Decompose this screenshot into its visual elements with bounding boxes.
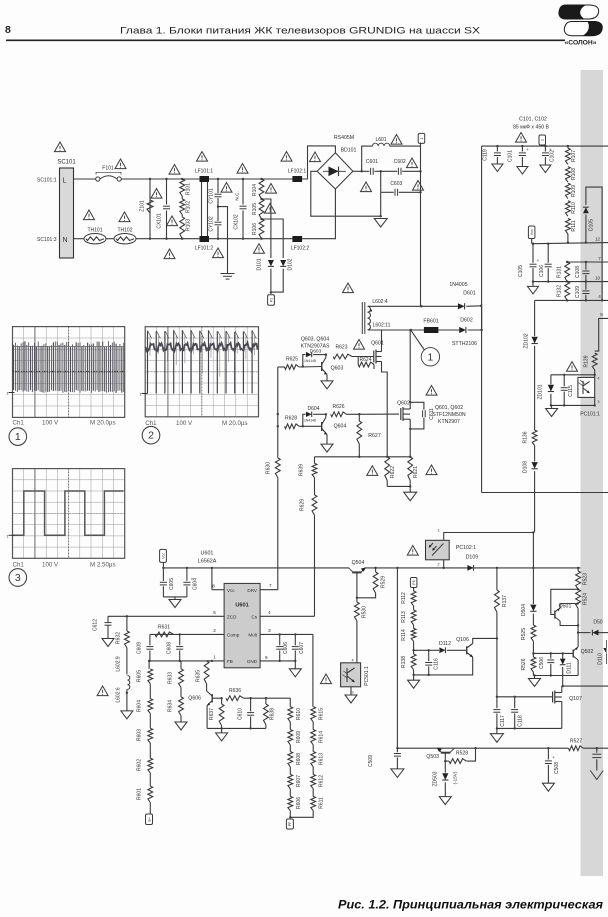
wire R606 to P node bbox=[289, 811, 291, 818]
junction R139 bottom bbox=[594, 374, 596, 376]
svg-text:1: 1 bbox=[420, 137, 424, 139]
capacitor C102 polarized bbox=[545, 146, 555, 165]
junction vcc line D504 column bbox=[532, 567, 534, 569]
varistor Z101 bbox=[140, 200, 154, 213]
svg-text:L602:9: L602:9 bbox=[115, 656, 121, 672]
wire node to C116 bbox=[414, 649, 429, 651]
mosfet Q601 bbox=[371, 340, 384, 367]
warning triangle 26 bbox=[367, 466, 378, 476]
svg-text:R102: R102 bbox=[185, 201, 191, 213]
capacitor C604 polarized bbox=[183, 576, 198, 590]
svg-text:R630: R630 bbox=[266, 462, 272, 474]
svg-text:5: 5 bbox=[213, 610, 216, 615]
svg-text:Q107: Q107 bbox=[569, 696, 582, 702]
wire C603 left bbox=[381, 191, 394, 193]
wire R114 to node bbox=[413, 641, 415, 650]
wire C509 bottom bbox=[396, 757, 398, 769]
svg-text:1: 1 bbox=[541, 139, 545, 141]
svg-text:R607: R607 bbox=[296, 775, 302, 787]
svg-text:R114: R114 bbox=[401, 629, 407, 641]
wire C608 bottom bbox=[179, 651, 181, 661]
wire D604 branch up bbox=[303, 414, 306, 426]
junction N CX102 bbox=[242, 238, 244, 240]
wire ZD101 riser bbox=[550, 375, 552, 385]
svg-text:P6: P6 bbox=[412, 580, 416, 584]
oscillogram 3 caption bbox=[13, 561, 116, 568]
wire R101-R102 bbox=[181, 196, 183, 199]
junction C610 top bbox=[249, 697, 251, 699]
oscillogram 2 number bbox=[142, 426, 160, 444]
wire R605-R604 bbox=[149, 684, 151, 699]
capacitor C102 plates bbox=[542, 153, 549, 156]
wire C118 column bbox=[514, 697, 516, 708]
svg-text:R611: R611 bbox=[318, 797, 324, 809]
svg-text:1N4005: 1N4005 bbox=[449, 282, 467, 288]
wire R626 to gate line bbox=[347, 413, 400, 415]
capacitor C inside band bbox=[592, 754, 601, 757]
junction C608 comp bbox=[179, 633, 181, 635]
warning triangle 5 bbox=[169, 165, 180, 175]
svg-text:4: 4 bbox=[598, 377, 600, 381]
warning triangle 10 bbox=[237, 164, 248, 174]
wire C610 bottom stub bbox=[250, 717, 252, 729]
wire D602 to rail bbox=[468, 306, 482, 330]
wire D102 to P2 node bbox=[271, 269, 283, 292]
svg-text:Q601, Q602: Q601, Q602 bbox=[435, 405, 463, 411]
diode D109 bbox=[467, 565, 473, 571]
svg-text:100 V: 100 V bbox=[176, 420, 193, 427]
svg-text:C610: C610 bbox=[238, 708, 244, 720]
svg-text:C117: C117 bbox=[500, 715, 506, 727]
svg-text:M 2.50µs: M 2.50µs bbox=[90, 561, 116, 568]
capacitor C601 bbox=[366, 159, 378, 175]
svg-text:CX102: CX102 bbox=[234, 214, 240, 230]
wire node to D601 bbox=[421, 305, 458, 307]
oscillogram 3 box bbox=[6, 469, 124, 559]
svg-text:LF102:1: LF102:1 bbox=[288, 169, 307, 175]
wire L602:11 to FB601 bbox=[368, 329, 424, 331]
svg-text:85 мкФ x 450 В: 85 мкФ x 450 В bbox=[513, 125, 550, 131]
hot ground bridge bbox=[374, 219, 387, 228]
junction Vcc pin12 bbox=[532, 243, 534, 245]
svg-text:R624: R624 bbox=[360, 357, 372, 363]
wire node to C602 bbox=[381, 170, 398, 172]
warning triangle 2 bbox=[115, 159, 126, 169]
svg-text:Q606: Q606 bbox=[188, 695, 201, 701]
wire C612 bottom bbox=[107, 626, 109, 639]
transistor Q605 bbox=[188, 691, 212, 706]
wire C603 branch down bbox=[380, 171, 382, 192]
wire bridge plus to C601 node bbox=[353, 170, 362, 172]
warning triangle 23 bbox=[343, 283, 354, 293]
svg-text:R112: R112 bbox=[401, 592, 407, 604]
svg-text:D603: D603 bbox=[310, 349, 322, 355]
wire sense rail bbox=[315, 456, 411, 458]
svg-text:C118: C118 bbox=[518, 715, 524, 727]
wire Z101 column bbox=[149, 179, 151, 239]
wire CX102 column bottom bbox=[242, 211, 244, 239]
capacitor C508 polarized bbox=[545, 755, 560, 774]
warning triangle 4 bbox=[119, 212, 130, 222]
warning triangle 29 bbox=[321, 674, 332, 684]
svg-text:+: + bbox=[526, 147, 529, 152]
warning triangle 17 bbox=[213, 248, 224, 258]
wire Q602 drain up bbox=[409, 330, 411, 402]
wire C602 to right riser bbox=[402, 170, 420, 172]
svg-text:«СОЛОН»: «СОЛОН» bbox=[565, 40, 597, 47]
wire Vcc rail Q504 right bbox=[365, 567, 580, 569]
svg-text:R610: R610 bbox=[296, 708, 302, 720]
svg-text:C506: C506 bbox=[539, 657, 545, 669]
filter LF102 pin 1 bbox=[288, 169, 307, 183]
optocoupler PC101 phototransistor bbox=[578, 377, 595, 397]
ground C604 C605 bbox=[169, 600, 181, 608]
wire R105 tap to D102 bbox=[262, 219, 284, 258]
junction Q501 collector bbox=[577, 624, 579, 626]
svg-text:1N4148: 1N4148 bbox=[304, 359, 316, 363]
junction N CY102 bbox=[217, 238, 219, 240]
wire primary return to transformer bbox=[482, 492, 608, 494]
resistor R524 bbox=[576, 589, 589, 608]
wire riser to L601 bbox=[362, 146, 373, 171]
wire ZD101 node line bbox=[551, 374, 595, 376]
junction R132 bottom bbox=[566, 299, 568, 301]
junction Q602 source C611 bbox=[409, 428, 411, 430]
wire C604 bottom bbox=[186, 586, 188, 597]
wire R633 stub top bbox=[180, 661, 182, 669]
wire CX102 column top bbox=[242, 179, 244, 205]
svg-text:5: 5 bbox=[600, 312, 603, 317]
wire Q107 gate line bbox=[515, 696, 553, 698]
wire aux rail bbox=[397, 747, 568, 749]
junction C117 join bbox=[496, 727, 498, 729]
wire R529 bottom to base node bbox=[357, 593, 376, 598]
junction C116 top bbox=[428, 649, 430, 651]
junction Q502 D50x bbox=[577, 631, 579, 633]
wire N from SC101 to TH101 bbox=[74, 238, 85, 240]
junction D111 Q107 drain bbox=[562, 685, 564, 687]
junction R526 gnd rail bbox=[533, 674, 535, 676]
svg-text:Рис. 1.2. Принципиальная элект: Рис. 1.2. Принципиальная электрическая bbox=[338, 898, 603, 912]
junction L CX102 bbox=[242, 178, 244, 180]
junction D601 rail bbox=[480, 305, 482, 307]
callout circle 1 bbox=[411, 331, 439, 366]
svg-text:C508: C508 bbox=[554, 762, 560, 774]
capacitor CY101 bbox=[209, 188, 222, 204]
svg-text:C609: C609 bbox=[136, 642, 142, 654]
svg-text:C606: C606 bbox=[283, 642, 289, 654]
wire R614-R613 bbox=[312, 745, 314, 752]
wire R111 to pin12 line bbox=[567, 234, 569, 243]
svg-text:R109: R109 bbox=[571, 185, 577, 197]
wire R621 bottom stub bbox=[409, 481, 411, 487]
warning triangle 16 bbox=[254, 244, 265, 254]
svg-text:D108: D108 bbox=[523, 461, 529, 473]
optocoupler PC102 LED bbox=[426, 540, 450, 560]
svg-text:FB601: FB601 bbox=[423, 318, 438, 324]
svg-text:R525: R525 bbox=[521, 628, 527, 640]
transistor Q504 bbox=[349, 560, 366, 575]
wire D504 to R525 bbox=[532, 614, 534, 625]
wire pin3 Mult line bbox=[260, 633, 313, 635]
svg-text:1: 1 bbox=[15, 431, 21, 443]
svg-text:C105: C105 bbox=[518, 265, 524, 277]
warning triangle 15 bbox=[310, 152, 321, 162]
svg-text:R608: R608 bbox=[296, 753, 302, 765]
junction C116 bottom bbox=[428, 674, 430, 676]
svg-text:C605: C605 bbox=[169, 578, 175, 590]
filter LF101 pin 2 bbox=[195, 236, 214, 252]
junction C109 bottom bbox=[585, 299, 587, 301]
svg-text:R632: R632 bbox=[115, 632, 121, 644]
capacitor C119 bbox=[483, 146, 498, 164]
svg-text:Q603: Q603 bbox=[331, 366, 344, 372]
wire R524 bottom bbox=[577, 609, 579, 633]
svg-text:R614: R614 bbox=[318, 731, 324, 743]
junction N Z101 bbox=[149, 238, 151, 240]
wire R607-R606 bbox=[289, 789, 291, 797]
wire Vcc rail bbox=[163, 567, 349, 569]
svg-text:R604: R604 bbox=[136, 700, 142, 712]
resistor R609 bbox=[288, 730, 302, 745]
wire D603 branch up bbox=[303, 355, 306, 367]
svg-text:1: 1 bbox=[438, 529, 440, 533]
ground C508 bbox=[542, 783, 554, 791]
svg-text:Q604: Q604 bbox=[334, 424, 347, 430]
junction R523 R524 bbox=[577, 588, 579, 590]
junction Q504 base node bbox=[356, 597, 358, 599]
junction R627 top bbox=[358, 413, 360, 415]
wire drain line to transformer bbox=[563, 685, 608, 687]
wire C609 top corner bbox=[149, 634, 151, 645]
wire D112 to Q106 base bbox=[447, 649, 467, 651]
svg-text:Ch1: Ch1 bbox=[145, 420, 157, 427]
resistor R629 bbox=[300, 495, 317, 515]
svg-text:R137: R137 bbox=[502, 595, 508, 607]
svg-text:1: 1 bbox=[428, 353, 434, 364]
wire base line Q502 bbox=[533, 652, 573, 654]
junction R621 gnd bbox=[409, 485, 411, 487]
wire R638 top stub bbox=[265, 698, 267, 704]
resistor R138 bbox=[401, 654, 416, 670]
capacitor C606 bbox=[276, 642, 289, 654]
wire C506 bottom bbox=[550, 664, 552, 676]
wire CY to N bbox=[217, 226, 219, 239]
resistor R101 bbox=[180, 179, 192, 196]
resistor R624 bbox=[358, 357, 374, 367]
wire C606 bottom bbox=[279, 651, 281, 661]
svg-text:C608: C608 bbox=[166, 642, 172, 654]
svg-text:SC101: SC101 bbox=[57, 160, 76, 166]
svg-text:Vcc: Vcc bbox=[227, 588, 235, 593]
wire C106 bottom bbox=[547, 268, 549, 282]
junction C508 rail bbox=[547, 747, 549, 749]
warning triangle 9 bbox=[197, 152, 208, 162]
wire C118 bottom bbox=[514, 714, 516, 729]
wire R609-R608 bbox=[289, 745, 291, 752]
capacitor C119 plates bbox=[494, 153, 501, 156]
svg-text:Q504: Q504 bbox=[352, 560, 365, 566]
junction C106 top bbox=[547, 243, 549, 245]
svg-text:C601: C601 bbox=[366, 159, 378, 165]
svg-text:D110: D110 bbox=[598, 653, 604, 665]
junction C106 bottom bbox=[547, 280, 549, 282]
wire R527 to transformer cap bbox=[583, 747, 608, 749]
wire C105 gnd stub bbox=[532, 282, 534, 287]
svg-text:DRV: DRV bbox=[247, 588, 258, 593]
wire Q603 emitter to gnd bbox=[326, 375, 328, 381]
wire Q605 base right bbox=[212, 697, 221, 699]
diode D108 bbox=[532, 462, 538, 469]
wire PC501 bottom pin bbox=[350, 687, 352, 695]
junction ZD101 gnd bbox=[550, 404, 552, 406]
capacitor C506 bbox=[539, 657, 555, 669]
diode D507 bbox=[592, 630, 598, 636]
svg-text:R602: R602 bbox=[136, 759, 142, 771]
wire D50x to transformer bbox=[599, 632, 608, 634]
wire C117 gate seg bbox=[497, 696, 515, 698]
wire C inside band column bbox=[596, 748, 598, 753]
wire R139 to node line bbox=[594, 370, 596, 375]
svg-text:PC501:1: PC501:1 bbox=[364, 666, 370, 686]
svg-text:(-15V): (-15V) bbox=[452, 771, 457, 784]
svg-text:N.C.: N.C. bbox=[235, 191, 240, 200]
svg-text:Mult: Mult bbox=[248, 632, 257, 637]
wire hot gnd node down bbox=[380, 192, 382, 216]
wire R634 to gnd bbox=[180, 716, 182, 722]
transistor Q106 bbox=[456, 637, 473, 657]
svg-text:M 20.0µs: M 20.0µs bbox=[90, 420, 116, 427]
ground C509 bbox=[391, 769, 404, 778]
wire R638 node to R610 chain bbox=[266, 697, 290, 699]
svg-text:R139: R139 bbox=[584, 355, 590, 367]
junction R628 tap bbox=[277, 425, 279, 427]
junction riser L602:4 bbox=[420, 305, 422, 307]
wire PC101 top pin bbox=[594, 375, 596, 378]
ground R526 bbox=[529, 679, 541, 687]
ground stub C604 bbox=[174, 597, 176, 600]
junction Q503 base node bbox=[444, 760, 446, 762]
resistor R105 bbox=[252, 199, 264, 219]
resistor R110 bbox=[566, 201, 577, 216]
junction N CX101 bbox=[165, 238, 167, 240]
wire D111 bottom bbox=[562, 667, 564, 686]
svg-text:R101: R101 bbox=[185, 183, 191, 195]
warning triangle 11 bbox=[221, 183, 232, 193]
capacitor C106 bbox=[539, 264, 552, 277]
warning triangle 1 bbox=[55, 142, 66, 152]
junction C118 top bbox=[514, 696, 516, 698]
svg-text:R138: R138 bbox=[401, 656, 407, 668]
wire D604 to collector node bbox=[313, 413, 326, 415]
capacitor C609 bbox=[136, 642, 153, 654]
warning triangle 3 bbox=[84, 210, 95, 220]
ground ZD503 bbox=[439, 797, 451, 805]
capacitor C608 bbox=[166, 642, 183, 654]
junction PC102 line D108 bbox=[532, 531, 534, 533]
svg-text:Q106: Q106 bbox=[456, 637, 469, 643]
wire L601 to corner bbox=[390, 145, 421, 147]
svg-text:R131: R131 bbox=[557, 266, 563, 278]
resistor R114 bbox=[401, 628, 416, 641]
wire Q106 collector to R137 column bbox=[473, 638, 497, 643]
wire pin7 line bbox=[568, 261, 608, 263]
capacitor C109 bbox=[575, 286, 590, 298]
junction C118 join bbox=[514, 727, 516, 729]
transformer T601 body (cut at page edge) bbox=[581, 70, 604, 876]
svg-text:C119: C119 bbox=[483, 149, 489, 161]
mains connector SC101 bbox=[57, 160, 76, 259]
resistor R106 bbox=[252, 219, 264, 239]
resistor R602 bbox=[136, 758, 152, 773]
wire R529 top stub bbox=[375, 568, 377, 572]
ground C105 bbox=[528, 286, 539, 294]
svg-text:R111: R111 bbox=[571, 220, 577, 231]
wire R107 top stub bbox=[567, 146, 569, 148]
junction C108 top bbox=[585, 261, 587, 263]
svg-text:D504: D504 bbox=[521, 604, 527, 616]
resistor R639 bbox=[299, 463, 317, 477]
capacitor C610 bbox=[238, 708, 255, 720]
oscillogram 3 number bbox=[9, 569, 27, 587]
svg-text:Z101: Z101 bbox=[140, 200, 146, 212]
junction D604 left bbox=[302, 425, 304, 427]
svg-text:R113: R113 bbox=[401, 611, 407, 623]
wire Q601 drain up bbox=[381, 330, 383, 347]
wire aux rail riser bbox=[396, 568, 398, 748]
connector R112 top bbox=[410, 578, 417, 588]
svg-text:4: 4 bbox=[351, 659, 353, 663]
svg-text:R631: R631 bbox=[158, 625, 170, 631]
ground C119 bbox=[492, 164, 503, 172]
resistor R627 bbox=[357, 421, 362, 444]
junction PC102 vcc line bbox=[443, 567, 445, 569]
svg-text:+: + bbox=[549, 147, 552, 152]
svg-text:U601: U601 bbox=[235, 603, 248, 609]
wire C117 C118 Q107 join bbox=[497, 727, 562, 729]
wire LF102:1 to bridge top bbox=[302, 146, 335, 179]
junction C108 bottom bbox=[585, 280, 587, 282]
svg-text:R527: R527 bbox=[570, 739, 582, 745]
wire C115 column bbox=[563, 375, 565, 386]
resistor R622 bbox=[385, 457, 396, 481]
capacitor C602 bbox=[394, 159, 406, 175]
svg-text:1: 1 bbox=[213, 655, 216, 660]
wire gnd stub ZD101 bbox=[551, 405, 553, 408]
transistor Q501 bbox=[555, 604, 572, 622]
wire C601 to C602 node bbox=[374, 170, 380, 172]
junction node 1 tap bbox=[410, 329, 412, 331]
ground Q604 bbox=[321, 444, 333, 452]
oscillogram 1 box bbox=[6, 327, 124, 418]
transistor Q503 bbox=[426, 748, 454, 762]
svg-text:L6562A: L6562A bbox=[198, 558, 217, 564]
wire Q501 collector down bbox=[560, 621, 578, 626]
wire C611 loop bottom bbox=[410, 418, 424, 429]
svg-text:Q603, Q604: Q603, Q604 bbox=[301, 337, 329, 343]
thermistor TH102 bbox=[114, 228, 136, 244]
wire C117 bottom bbox=[496, 714, 498, 729]
wire R104 tap to D101 bbox=[262, 199, 271, 258]
wire C608 column bbox=[179, 634, 181, 645]
junction bridge plus bbox=[361, 170, 363, 172]
wire R633-R634 bbox=[180, 688, 182, 697]
diode D105 bbox=[583, 207, 589, 213]
junction R632 top bbox=[126, 615, 128, 617]
resistor R529 bbox=[373, 572, 386, 593]
svg-text:C108: C108 bbox=[575, 266, 581, 278]
resistor R611 bbox=[311, 796, 325, 810]
